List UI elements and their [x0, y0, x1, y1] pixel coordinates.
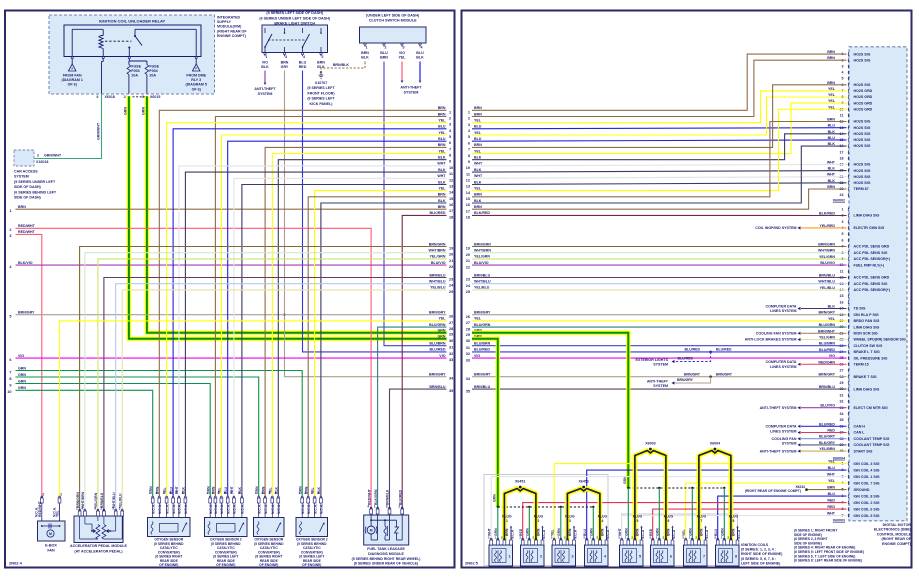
svg-text:3: 3: [163, 491, 165, 495]
svg-text:2: 2: [124, 95, 126, 99]
svg-text:PLUG: PLUG: [633, 515, 643, 519]
svg-text:YEL: YEL: [399, 56, 407, 60]
svg-text:LINES SYSTEM: LINES SYSTEM: [770, 429, 796, 433]
svg-text:ELECTRONICS (DME): ELECTRONICS (DME): [874, 528, 912, 532]
svg-text:2: 2: [449, 117, 451, 121]
svg-text:CAN H: CAN H: [854, 425, 866, 429]
svg-text:(DIAGRAM 5: (DIAGRAM 5: [186, 83, 207, 87]
svg-text:(6 SERIES BEHIND LEFT: (6 SERIES BEHIND LEFT: [14, 190, 57, 194]
svg-text:(RIGHT REAR OF: (RIGHT REAR OF: [217, 29, 247, 33]
svg-text:N.C.A.: N.C.A.: [209, 504, 213, 514]
svg-text:VIO: VIO: [439, 354, 445, 358]
svg-text:BLK: BLK: [474, 180, 482, 184]
svg-text:HO2S SIG: HO2S SIG: [854, 138, 871, 142]
svg-text:3: 3: [269, 491, 271, 495]
svg-text:BRN/GRY: BRN/GRY: [819, 373, 836, 377]
svg-text:BRN: BRN: [474, 106, 482, 110]
svg-text:25: 25: [449, 290, 453, 294]
svg-text:WHT: WHT: [827, 512, 836, 516]
svg-text:BRN/BLU: BRN/BLU: [474, 273, 491, 277]
svg-text:BLK: BLK: [828, 167, 836, 171]
svg-text:BRAKE T SIG: BRAKE T SIG: [854, 375, 877, 379]
svg-text:YEL: YEL: [439, 186, 447, 190]
svg-text:N.C.A: N.C.A: [737, 529, 741, 539]
svg-text:N.C.A.: N.C.A.: [264, 504, 268, 514]
svg-text:RED: RED: [827, 429, 835, 433]
svg-text:VIO: VIO: [18, 354, 24, 358]
svg-text:BRN/GRN: BRN/GRN: [429, 242, 446, 246]
svg-text:OF ENGINE): OF ENGINE): [302, 563, 321, 567]
svg-text:CAN L: CAN L: [854, 431, 866, 435]
svg-text:BRN: BRN: [317, 61, 325, 65]
svg-text:N.C.A.: N.C.A.: [172, 504, 176, 514]
svg-text:HO2S GRD: HO2S GRD: [854, 101, 873, 105]
svg-text:X60003: X60003: [833, 519, 845, 523]
svg-text:P: P: [195, 67, 197, 71]
svg-text:1: 1: [206, 491, 208, 495]
svg-text:BLU: BLU: [380, 51, 388, 55]
svg-text:11: 11: [840, 114, 844, 118]
svg-text:4: 4: [317, 491, 319, 495]
svg-text:WHT: WHT: [827, 160, 836, 164]
svg-text:8: 8: [732, 519, 734, 523]
svg-text:27: 27: [449, 321, 453, 325]
svg-text:BRN/GRY: BRN/GRY: [819, 311, 836, 315]
svg-text:BRAKE L T SIG: BRAKE L T SIG: [854, 350, 880, 354]
svg-text:28: 28: [466, 327, 470, 331]
svg-text:N.C.A.: N.C.A.: [313, 504, 317, 514]
svg-text:9: 9: [9, 383, 11, 387]
svg-text:N.C.A: N.C.A: [606, 529, 610, 539]
svg-text:N.C.A: N.C.A: [542, 529, 546, 539]
svg-text:34: 34: [840, 412, 844, 416]
svg-text:ELECTR CMN SIG: ELECTR CMN SIG: [854, 226, 885, 230]
svg-text:X6015: X6015: [150, 95, 160, 99]
svg-text:BRN/GRN: BRN/GRN: [818, 243, 835, 247]
svg-text:BRN: BRN: [732, 528, 736, 536]
svg-text:(RIGHT REAR OF: (RIGHT REAR OF: [881, 537, 911, 541]
svg-text:(5 SERIES LEFT SIDE OF DASH): (5 SERIES LEFT SIDE OF DASH): [266, 11, 323, 15]
svg-text:RED/WHT: RED/WHT: [18, 230, 36, 234]
svg-text:M: M: [370, 529, 373, 533]
svg-text:31: 31: [449, 346, 453, 350]
svg-text:5: 5: [449, 135, 451, 139]
svg-text:IGNITION COILS: IGNITION COILS: [741, 543, 769, 547]
svg-text:4: 4: [601, 519, 603, 523]
svg-text:8: 8: [9, 377, 11, 381]
svg-text:6: 6: [169, 491, 171, 495]
svg-text:IGN COIL 2 SIG: IGN COIL 2 SIG: [854, 501, 880, 505]
svg-text:N.C.A.: N.C.A.: [184, 504, 188, 514]
svg-text:GRY: GRY: [281, 65, 289, 69]
svg-text:SYSTEM: SYSTEM: [653, 363, 668, 367]
svg-text:SUPPLY: SUPPLY: [217, 20, 232, 24]
svg-text:HO2S GRD: HO2S GRD: [854, 108, 873, 112]
svg-text:HO2S SIG: HO2S SIG: [854, 181, 871, 185]
svg-text:COMPUTER DATA: COMPUTER DATA: [765, 425, 796, 429]
svg-text:COOLING FAN SYSTEM: COOLING FAN SYSTEM: [756, 332, 797, 336]
svg-text:11: 11: [466, 172, 470, 176]
svg-text:3: 3: [9, 234, 11, 238]
svg-text:10: 10: [7, 390, 11, 394]
svg-text:(UNDER LEFT SIDE OF DASH): (UNDER LEFT SIDE OF DASH): [366, 13, 420, 17]
svg-text:5: 5: [468, 135, 470, 139]
svg-text:ANTI-LOCK BRAKES SYSTEM: ANTI-LOCK BRAKES SYSTEM: [745, 338, 797, 342]
svg-text:IGN COIL 6 SIG: IGN COIL 6 SIG: [854, 507, 880, 511]
svg-text:21: 21: [466, 259, 470, 263]
svg-text:1: 1: [266, 55, 268, 59]
svg-text:YEL: YEL: [828, 99, 836, 103]
svg-text:3: 3: [449, 123, 451, 127]
svg-text:BRN: BRN: [667, 528, 671, 536]
svg-text:HO2S SIG: HO2S SIG: [854, 58, 871, 62]
svg-text:7: 7: [449, 147, 451, 151]
svg-text:BLU: BLU: [438, 137, 446, 141]
svg-text:2: 2: [238, 491, 240, 495]
svg-text:18: 18: [840, 156, 844, 160]
svg-text:1: 1: [60, 493, 62, 497]
svg-text:FROM FAN: FROM FAN: [63, 74, 82, 78]
svg-text:IGN COIL 3 SIG: IGN COIL 3 SIG: [854, 462, 880, 466]
svg-text:BLK: BLK: [474, 156, 482, 160]
svg-text:6: 6: [449, 141, 451, 145]
svg-text:YEL/GRN: YEL/GRN: [819, 255, 835, 259]
svg-text:16: 16: [840, 300, 844, 304]
svg-text:YEL/BLU: YEL/BLU: [118, 493, 122, 508]
svg-text:OF 6): OF 6): [192, 87, 202, 91]
svg-text:18: 18: [466, 216, 470, 220]
svg-text:BLK: BLK: [438, 156, 446, 160]
svg-text:CLUTCH SWITCH MODULE: CLUTCH SWITCH MODULE: [369, 19, 417, 23]
svg-text:COOLANT TEMP SIG: COOLANT TEMP SIG: [854, 443, 890, 447]
svg-text:RLY 3: RLY 3: [191, 78, 201, 82]
svg-text:2: 2: [37, 154, 39, 158]
svg-text:BRN: BRN: [827, 56, 835, 60]
svg-text:COOLANT TEMP SIG: COOLANT TEMP SIG: [854, 437, 890, 441]
svg-text:BLU/RED: BLU/RED: [819, 422, 835, 426]
svg-text:BLK/RED: BLK/RED: [398, 489, 402, 505]
svg-text:BLK/GRY: BLK/GRY: [819, 441, 836, 445]
svg-text:BRN: BRN: [505, 528, 509, 536]
svg-text:HO2S SIG: HO2S SIG: [854, 120, 871, 124]
svg-text:N.C.A: N.C.A: [641, 529, 645, 539]
svg-text:YEL/GRN: YEL/GRN: [819, 336, 835, 340]
svg-text:2N02 4: 2N02 4: [9, 561, 23, 566]
svg-text:29: 29: [840, 381, 844, 385]
svg-text:DIAGNOSIS MODULE: DIAGNOSIS MODULE: [368, 552, 404, 556]
svg-text:OIL PRESSURE SIG: OIL PRESSURE SIG: [854, 356, 888, 360]
svg-text:17: 17: [466, 209, 470, 213]
svg-text:OF ENGINE): OF ENGINE): [259, 563, 278, 567]
svg-text:32: 32: [449, 352, 453, 356]
svg-text:2: 2: [385, 46, 387, 50]
svg-text:N.C.A.: N.C.A.: [241, 504, 245, 514]
svg-text:N.C.A: N.C.A: [510, 529, 514, 539]
svg-text:N.C.A: N.C.A: [705, 529, 709, 539]
svg-text:GRN: GRN: [18, 379, 26, 383]
svg-text:GRN: GRN: [438, 335, 446, 339]
svg-text:1: 1: [298, 491, 300, 495]
svg-text:N.C.A.: N.C.A.: [307, 504, 311, 514]
svg-text:4: 4: [212, 491, 214, 495]
svg-text:BRN: BRN: [827, 185, 835, 189]
svg-text:ACC PDL SENSOR(+): ACC PDL SENSOR(+): [854, 288, 891, 292]
svg-text:BRN/GRY: BRN/GRY: [677, 378, 694, 382]
svg-text:N.C.A.: N.C.A.: [233, 504, 237, 514]
svg-text:LIMA DIAG SIG: LIMA DIAG SIG: [854, 387, 880, 391]
svg-text:WHT/BRN: WHT/BRN: [429, 249, 446, 253]
svg-text:YEL: YEL: [474, 131, 482, 135]
svg-text:BRN: BRN: [827, 81, 835, 85]
svg-text:WHT/BLU: WHT/BLU: [429, 280, 446, 284]
svg-text:BRN: BRN: [474, 193, 482, 197]
svg-text:2: 2: [322, 55, 324, 59]
svg-text:WHT: WHT: [827, 173, 836, 177]
svg-text:BLK: BLK: [828, 130, 836, 134]
svg-text:YEL: YEL: [474, 149, 482, 153]
svg-text:(5 SERIES: 5, 6, 7, 8 :: (5 SERIES: 5, 6, 7, 8 :: [741, 557, 776, 561]
svg-text:29: 29: [466, 333, 470, 337]
svg-text:BLU: BLU: [828, 466, 836, 470]
svg-text:ANTI-THEFT SYSTEM: ANTI-THEFT SYSTEM: [760, 406, 797, 410]
svg-text:2: 2: [537, 519, 539, 523]
svg-text:(5 SERIES: 1, 2, 3, 4 :: (5 SERIES: 1, 2, 3, 4 :: [741, 548, 776, 552]
svg-text:F003: F003: [131, 69, 139, 73]
svg-text:8: 8: [468, 154, 470, 158]
svg-text:ANTI-THEFT: ANTI-THEFT: [400, 86, 422, 90]
svg-text:X6018: X6018: [105, 95, 115, 99]
svg-text:YEL: YEL: [828, 87, 836, 91]
svg-text:11: 11: [840, 269, 844, 273]
svg-text:BLU: BLU: [474, 137, 482, 141]
svg-text:30: 30: [449, 339, 453, 343]
svg-text:SIDE OF DASH): SIDE OF DASH): [14, 185, 42, 189]
svg-text:12: 12: [466, 179, 470, 183]
svg-text:7: 7: [703, 555, 705, 559]
svg-text:M: M: [49, 532, 52, 536]
svg-text:FRONT FLOOR): FRONT FLOOR): [307, 91, 335, 95]
svg-text:BLU: BLU: [438, 125, 446, 129]
svg-text:7: 7: [700, 519, 702, 523]
svg-text:BLK: BLK: [416, 56, 424, 60]
svg-text:26: 26: [466, 315, 470, 319]
svg-text:HO2S SIG: HO2S SIG: [854, 126, 871, 130]
svg-text:20: 20: [449, 253, 453, 257]
svg-text:33: 33: [466, 358, 470, 362]
svg-text:BLU/VIO: BLU/VIO: [474, 261, 489, 265]
svg-text:15: 15: [840, 294, 844, 298]
svg-text:WHEEL SPD(RR) SENSOR SIG: WHEEL SPD(RR) SENSOR SIG: [854, 338, 906, 342]
svg-text:BRN/BLU: BRN/BLU: [100, 492, 104, 508]
svg-text:17: 17: [840, 150, 844, 154]
svg-text:BRN: BRN: [700, 528, 704, 536]
svg-text:19: 19: [449, 247, 453, 251]
svg-text:3: 3: [569, 519, 571, 523]
svg-text:BRN/BLU: BRN/BLU: [429, 273, 446, 277]
svg-text:WHT: WHT: [437, 162, 446, 166]
svg-text:5: 5: [842, 77, 844, 81]
svg-text:TERM 15: TERM 15: [854, 363, 869, 367]
svg-text:FROM DME: FROM DME: [186, 74, 206, 78]
svg-text:PLUG: PLUG: [534, 515, 544, 519]
svg-text:(5 SERIES UNDER LEFT: (5 SERIES UNDER LEFT: [14, 180, 56, 184]
svg-text:1: 1: [506, 519, 508, 523]
svg-text:(6 SERIES 8: LEFT REAR SIDE OF: (6 SERIES 8: LEFT REAR SIDE OF ENGINE): [794, 559, 862, 563]
svg-text:BRAKE LIGHT SWITCH: BRAKE LIGHT SWITCH: [274, 22, 315, 26]
svg-text:N.C.A.: N.C.A.: [320, 504, 324, 514]
svg-text:HO2S SIG: HO2S SIG: [854, 175, 871, 179]
svg-text:BLK/VIO: BLK/VIO: [18, 261, 33, 265]
svg-text:IGN COIL 5 SIG: IGN COIL 5 SIG: [854, 514, 880, 518]
svg-text:BRN: BRN: [474, 205, 482, 209]
svg-text:BLK: BLK: [828, 305, 836, 309]
svg-text:ANTI-THEFT SYSTEM: ANTI-THEFT SYSTEM: [760, 449, 797, 453]
svg-text:VIO: VIO: [474, 354, 480, 358]
svg-text:3: 3: [572, 555, 574, 559]
svg-text:2: 2: [42, 493, 44, 497]
svg-text:35: 35: [449, 389, 453, 393]
svg-text:GRN: GRN: [18, 373, 26, 377]
svg-text:LIMA DIAG SIG: LIMA DIAG SIG: [854, 325, 880, 329]
svg-text:YEL: YEL: [439, 149, 447, 153]
svg-text:MON SCR SIG: MON SCR SIG: [854, 332, 878, 336]
svg-text:LINES SYSTEM: LINES SYSTEM: [770, 365, 796, 369]
svg-text:2: 2: [540, 555, 542, 559]
svg-text:BLK/RED: BLK/RED: [430, 211, 446, 215]
svg-text:BRN: BRN: [361, 51, 369, 55]
svg-text:HO2S GRD: HO2S GRD: [854, 95, 873, 99]
svg-text:6: 6: [670, 555, 672, 559]
svg-text:BLK/RED: BLK/RED: [474, 211, 490, 215]
svg-text:CAR ACCESS: CAR ACCESS: [14, 170, 38, 174]
svg-text:GRN: GRN: [438, 329, 446, 333]
svg-text:FUSE: FUSE: [149, 65, 159, 69]
svg-text:PLUG: PLUG: [697, 515, 707, 519]
svg-text:ACC PDL SENS GRD: ACC PDL SENS GRD: [854, 245, 890, 249]
svg-text:15: 15: [449, 197, 453, 201]
svg-text:HO2S SIG: HO2S SIG: [854, 163, 871, 167]
svg-text:COIL INOP/IND SYSTEM: COIL INOP/IND SYSTEM: [755, 226, 796, 230]
svg-text:13: 13: [466, 185, 470, 189]
svg-text:F004: F004: [149, 69, 157, 73]
svg-text:BRN/GRY: BRN/GRY: [429, 311, 446, 315]
svg-text:10: 10: [449, 166, 453, 170]
svg-text:FUEL PMP RLY(+): FUEL PMP RLY(+): [854, 263, 885, 267]
svg-text:N.C.A.: N.C.A.: [277, 504, 281, 514]
svg-text:N.C.A.: N.C.A.: [258, 504, 262, 514]
svg-text:X6003: X6003: [645, 442, 655, 446]
svg-text:WHT/BRN: WHT/BRN: [474, 249, 491, 253]
svg-text:BLU/GRN: BLU/GRN: [819, 323, 836, 327]
svg-text:FUEL TANK LEAKAGE: FUEL TANK LEAKAGE: [367, 547, 405, 551]
svg-text:BLU/BRN: BLU/BRN: [474, 342, 491, 346]
svg-text:IGN COIL 7 SIG: IGN COIL 7 SIG: [854, 481, 880, 485]
svg-text:WHT: WHT: [827, 473, 836, 477]
svg-text:BRN: BRN: [18, 205, 26, 209]
svg-text:WHT/BRN: WHT/BRN: [818, 249, 835, 253]
svg-text:35: 35: [466, 389, 470, 393]
svg-text:31: 31: [840, 393, 844, 397]
svg-text:SYSTEM: SYSTEM: [14, 175, 29, 179]
svg-text:BRN: BRN: [438, 205, 446, 209]
svg-text:N.C.A.: N.C.A.: [178, 504, 182, 514]
svg-text:8: 8: [449, 154, 451, 158]
svg-text:2: 2: [261, 491, 263, 495]
svg-text:YEL/BLU: YEL/BLU: [474, 286, 490, 290]
svg-text:BRN: BRN: [438, 193, 446, 197]
svg-text:6: 6: [667, 519, 669, 523]
svg-text:GRN: GRN: [18, 366, 26, 370]
svg-text:2: 2: [182, 491, 184, 495]
svg-text:BRN: BRN: [474, 112, 482, 116]
svg-text:21: 21: [449, 259, 453, 263]
svg-text:GROUND: GROUND: [854, 488, 870, 492]
svg-text:SYSTEM: SYSTEM: [782, 442, 797, 446]
svg-text:35: 35: [840, 418, 844, 422]
svg-text:VIO: VIO: [829, 354, 835, 358]
svg-text:5: 5: [639, 555, 641, 559]
svg-text:3: 3: [218, 491, 220, 495]
svg-text:BRN/GRY: BRN/GRY: [18, 311, 35, 315]
svg-text:E-BOX: E-BOX: [45, 544, 57, 548]
svg-text:16: 16: [449, 203, 453, 207]
svg-text:N.C.A.: N.C.A.: [227, 504, 231, 514]
svg-text:IGN RLA P SIG: IGN RLA P SIG: [854, 313, 879, 317]
svg-text:31: 31: [466, 346, 470, 350]
svg-text:X6451: X6451: [515, 480, 525, 484]
svg-text:ENGINE COMPT): ENGINE COMPT): [882, 542, 912, 546]
svg-text:YEL: YEL: [474, 317, 482, 321]
svg-text:RED/WHT: RED/WHT: [18, 224, 36, 228]
svg-text:BRN: BRN: [438, 143, 446, 147]
svg-text:22: 22: [449, 265, 453, 269]
svg-text:YEL: YEL: [828, 460, 836, 464]
svg-text:BLU/RED: BLU/RED: [819, 348, 835, 352]
svg-text:BLK/GRN: BLK/GRN: [374, 489, 378, 505]
svg-text:18: 18: [449, 215, 453, 219]
svg-text:X6004: X6004: [710, 442, 720, 446]
svg-text:BLU: BLU: [828, 136, 836, 140]
svg-text:ACC PDL SENS GRD: ACC PDL SENS GRD: [854, 276, 890, 280]
svg-text:1: 1: [449, 110, 451, 114]
svg-text:HO2S SIG: HO2S SIG: [854, 132, 871, 136]
svg-text:4: 4: [275, 491, 277, 495]
svg-text:VIO: VIO: [399, 51, 405, 55]
svg-text:29: 29: [449, 333, 453, 337]
svg-text:BLK: BLK: [361, 56, 369, 60]
svg-text:YEL: YEL: [828, 93, 836, 97]
svg-text:START SIG: START SIG: [854, 449, 873, 453]
svg-text:7: 7: [9, 370, 11, 374]
svg-text:28: 28: [449, 327, 453, 331]
svg-text:BRN/BLU: BRN/BLU: [819, 385, 836, 389]
svg-text:CLUTCH SW SIG: CLUTCH SW SIG: [854, 344, 883, 348]
svg-text:4: 4: [156, 491, 158, 495]
svg-text:3: 3: [311, 491, 313, 495]
svg-text:WHT: WHT: [474, 174, 483, 178]
svg-text:N.C.A.: N.C.A.: [158, 504, 162, 514]
svg-text:5: 5: [175, 491, 177, 495]
svg-text:(6 SERIES UNDER LEFT SIDE OF D: (6 SERIES UNDER LEFT SIDE OF DASH): [259, 16, 330, 20]
svg-text:BLK: BLK: [474, 199, 482, 203]
svg-text:IGN COIL 1 SIG: IGN COIL 1 SIG: [854, 475, 880, 479]
svg-text:RIGHT SIDE OF ENGINE): RIGHT SIDE OF ENGINE): [741, 552, 782, 556]
svg-text:WHT/BRN: WHT/BRN: [81, 491, 85, 508]
svg-text:BLU: BLU: [474, 125, 482, 129]
svg-text:N.C.A.: N.C.A.: [220, 504, 224, 514]
svg-text:BLK/RED: BLK/RED: [819, 212, 835, 216]
svg-text:IGN COIL 4 SIG: IGN COIL 4 SIG: [854, 468, 880, 472]
